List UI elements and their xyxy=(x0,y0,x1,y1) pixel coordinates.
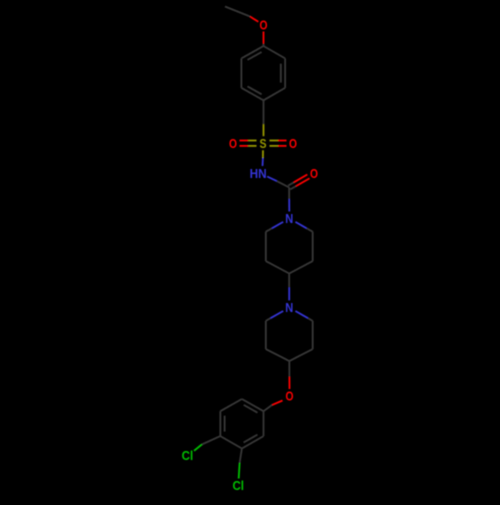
piperidine1 bond C11-C12 xyxy=(265,232,267,261)
double bond C=O line2 red part xyxy=(294,175,307,183)
piperidine1 bond C9-C10 xyxy=(289,261,313,273)
dichlorophenyl bond B-LL xyxy=(220,436,242,448)
piperidine2 bond N-C13 xyxy=(271,311,284,318)
wire ring-S bond dark half xyxy=(263,100,265,124)
svg-text:HN: HN xyxy=(250,166,267,181)
double bond S=O left line2 red xyxy=(240,145,249,147)
svg-text:O: O xyxy=(260,18,268,33)
svg-text:S: S xyxy=(260,136,267,151)
dichlorophenyl bond LR-B xyxy=(242,436,264,448)
double bond S=O left line1 olive xyxy=(248,140,256,142)
wire S-N bond olive half xyxy=(262,150,264,158)
double bond C=O line2 dark part xyxy=(288,182,294,185)
dichlorophenyl bond UL-T xyxy=(220,399,242,411)
piperidine2 bond C15-C16 xyxy=(289,349,312,361)
wire CH3-O methyl bond red half xyxy=(250,17,258,22)
piperidine1 bond C12-N xyxy=(272,222,283,228)
double bond S=O left line2 olive xyxy=(248,145,256,147)
double bond S=O right line2 red xyxy=(278,145,287,147)
wire O-phenyl bond red half xyxy=(272,401,282,405)
dichlorophenyl inner double LL-UL xyxy=(224,416,226,432)
svg-text:O: O xyxy=(310,166,318,181)
wire C-O ether bond dark half xyxy=(288,361,290,377)
wire CH3-O methyl bond dark half xyxy=(225,7,250,17)
svg-text:N: N xyxy=(285,300,293,315)
wire N-C bond blue half xyxy=(267,177,277,182)
wire C-Cl1 bond green half xyxy=(194,445,202,451)
double bond S=O left line1 red xyxy=(240,140,249,142)
benzene ring bond C6-C1 xyxy=(241,46,263,58)
piperidine2 bond C13-C14 xyxy=(265,321,267,349)
wire bipiperidine bond dark half xyxy=(288,274,290,288)
benzene ring bond C2-C3 xyxy=(284,58,286,88)
wire O-phenyl bond dark half xyxy=(264,405,273,411)
dichlorophenyl bond UR-LR xyxy=(263,411,265,436)
svg-text:O: O xyxy=(289,136,297,151)
piperidine2 bond C17-N xyxy=(295,311,308,318)
wire S-N bond blue half xyxy=(262,158,264,166)
wire C-O ether bond red half xyxy=(288,377,290,389)
wire C-Cl2 bond dark half xyxy=(240,449,242,464)
double bond C=O line1 dark part xyxy=(290,186,296,189)
dichlorophenyl inner double T-UR xyxy=(244,405,258,413)
svg-text:O: O xyxy=(286,389,294,404)
wire C-Cl2 bond green half xyxy=(238,463,241,479)
svg-text:O: O xyxy=(229,136,237,151)
benzene ring bond C3-C4 xyxy=(264,88,286,100)
wire N-C bond dark half xyxy=(277,181,289,187)
benzene ring bond C1-C2 xyxy=(264,46,286,58)
wire O-ring bond dark stub xyxy=(263,44,265,46)
wire C-N2 bond blue half xyxy=(288,199,290,212)
wire C-N2 bond dark half xyxy=(288,188,290,200)
svg-text:Cl: Cl xyxy=(182,448,194,463)
double bond S=O right line2 olive xyxy=(270,145,279,147)
piperidine1 bond N-C8 xyxy=(295,222,306,228)
svg-text:Cl: Cl xyxy=(232,478,244,493)
wire C-Cl1 bond dark half xyxy=(202,436,221,444)
svg-text:N: N xyxy=(285,211,293,226)
piperidine2 bond C14-C15 xyxy=(266,349,290,361)
piperidine2 bond C16-C17 xyxy=(312,321,314,349)
benzene ring inner double C2-C3 xyxy=(280,64,282,83)
dichlorophenyl bond LL-UL xyxy=(219,411,221,436)
piperidine1 bond C10-C11 xyxy=(266,261,289,273)
wire O-ring bond red part xyxy=(263,32,265,44)
wire ring-S bond olive half xyxy=(263,124,265,136)
dichlorophenyl inner double LR-B xyxy=(244,435,258,443)
piperidine1 bond C8-C9 xyxy=(312,232,314,261)
benzene ring inner double C6-C1 xyxy=(248,52,262,60)
double bond C=O line1 red part xyxy=(296,178,310,186)
benzene ring bond C4-C5 xyxy=(241,88,263,100)
benzene ring inner double C4-C5 xyxy=(248,86,262,94)
benzene ring bond C5-C6 xyxy=(240,58,242,88)
double bond S=O right line1 red xyxy=(278,140,287,142)
wire bipiperidine bond blue half xyxy=(288,287,290,300)
dichlorophenyl bond T-UR xyxy=(242,399,264,411)
double bond S=O right line1 olive xyxy=(270,140,279,142)
